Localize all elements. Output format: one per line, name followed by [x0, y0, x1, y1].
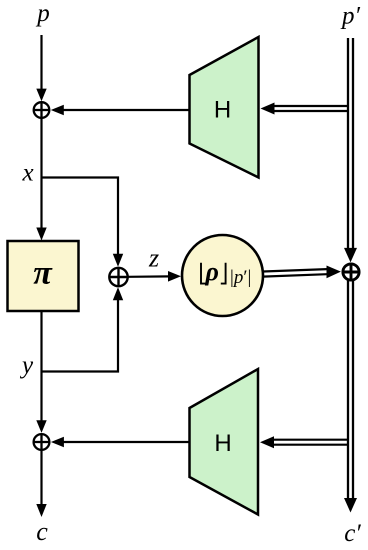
wire y branch: [42, 298, 119, 372]
svg-text:ρ: ρ: [205, 257, 219, 286]
svg-text:H: H: [214, 97, 231, 124]
xor X4 (right): [343, 264, 359, 280]
double wire rho to XOR4: [263, 269, 327, 271]
double wire rail to H1: [272, 105, 349, 107]
wire pi box down: [40, 311, 42, 422]
double rail p' down to XOR4: [347, 38, 349, 249]
svg-text:π: π: [33, 255, 53, 292]
wire H1 output to XOR1: [63, 109, 190, 111]
xor X2 (middle): [109, 268, 127, 286]
wire x branch: [42, 178, 119, 257]
xor X3 (bottom left): [34, 434, 50, 450]
truncation circle rho: [182, 235, 263, 316]
wire z: XOR2 to rho circle: [129, 275, 171, 278]
svg-text:|p′|: |p′|: [230, 267, 251, 288]
svg-text:c′: c′: [344, 520, 361, 547]
svg-text:y: y: [19, 352, 34, 379]
wire XOR1 down to permutation box: [40, 118, 42, 231]
wire p to XOR1: [40, 35, 42, 90]
hash trapezoid H2 (bottom): [190, 369, 259, 515]
permutation box pi: [8, 241, 79, 311]
svg-text:p′: p′: [340, 3, 361, 30]
svg-text:z: z: [148, 244, 159, 273]
hash trapezoid H1 (top): [190, 37, 259, 178]
wire XOR3 down to c: [40, 450, 42, 506]
double rail XOR4 down to c': [347, 281, 349, 500]
svg-text:p: p: [35, 0, 50, 27]
svg-text:x: x: [21, 160, 33, 187]
svg-text:H: H: [214, 430, 231, 457]
wire H2 output to XOR3: [63, 441, 190, 443]
xor X1 (top left): [34, 102, 50, 118]
svg-text:c: c: [36, 517, 48, 546]
double wire rail to H2: [272, 439, 350, 441]
